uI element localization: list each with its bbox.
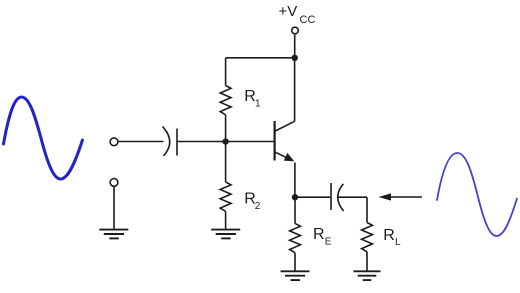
node (emitter): [292, 194, 298, 200]
label R2: [244, 191, 260, 213]
svg-text:R: R: [313, 226, 325, 243]
wire (emitter node to C2): [295, 196, 330, 198]
capacitor C1 (input coupling): [163, 127, 178, 157]
svg-text:L: L: [395, 237, 401, 248]
output arrow: [378, 193, 422, 200]
output sine wave: [437, 153, 517, 236]
svg-text:2: 2: [255, 201, 261, 212]
resistor R2: [220, 142, 231, 230]
label RE: [313, 226, 332, 248]
input sine wave: [4, 97, 83, 179]
resistor RL: [362, 223, 373, 271]
label R1: [244, 88, 261, 110]
power terminal +VCC: [292, 27, 299, 58]
svg-text:1: 1: [255, 99, 261, 110]
transistor Q1: [275, 58, 295, 197]
node (base bias node): [222, 138, 228, 144]
svg-text:R: R: [383, 227, 395, 244]
svg-text:E: E: [325, 237, 332, 248]
capacitor C2 (output coupling): [331, 183, 344, 211]
wire (C1 to base node): [178, 141, 274, 143]
label RL: [383, 227, 401, 248]
input terminal: [110, 138, 118, 146]
ground (input side): [99, 230, 128, 239]
ground terminal (input reference): [110, 179, 118, 230]
ground (below R2): [211, 230, 240, 239]
wire (top rail): [226, 57, 295, 59]
label +VCC: [279, 3, 316, 26]
ground (below RL): [354, 271, 381, 280]
svg-text:+V: +V: [279, 3, 298, 20]
svg-text:CC: CC: [300, 14, 316, 26]
wire (input to C1): [118, 141, 163, 143]
ground (below RE): [281, 271, 310, 280]
junction dot (VCC rail / collector): [292, 55, 298, 61]
resistor RE: [290, 197, 301, 270]
resistor R1: [220, 58, 231, 142]
wire (C2 to RL corner): [339, 197, 368, 222]
